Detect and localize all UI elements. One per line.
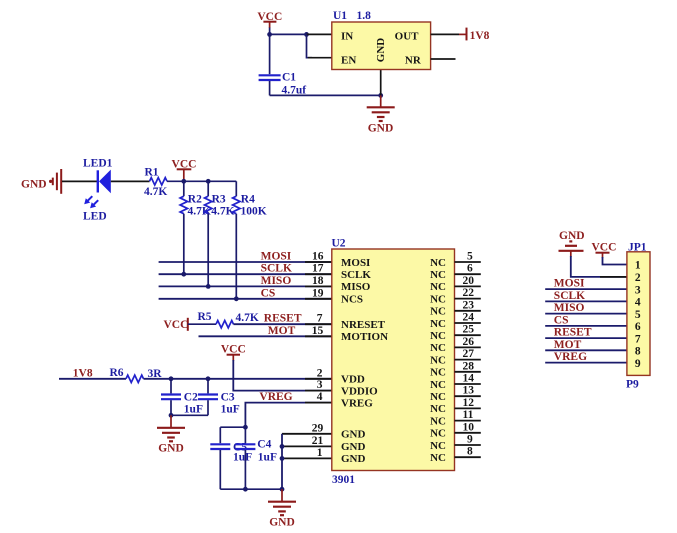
svg-text:24: 24: [463, 312, 475, 324]
svg-text:1: 1: [635, 260, 641, 272]
svg-text:NC: NC: [430, 440, 446, 452]
ground (below C2): [157, 415, 185, 454]
wire JP1 pin 3: [545, 288, 627, 290]
svg-text:NC: NC: [430, 428, 446, 440]
wire MISO: [159, 285, 332, 287]
svg-text:1.8: 1.8: [357, 10, 372, 22]
svg-text:3: 3: [635, 284, 641, 296]
pin 9 (NC): [430, 434, 481, 452]
svg-text:NC: NC: [430, 342, 446, 354]
junction: [243, 425, 248, 430]
svg-text:1: 1: [317, 447, 323, 459]
svg-text:VCC: VCC: [164, 319, 189, 331]
wire JP1 pin 6: [545, 325, 627, 327]
pin 28 (NC): [430, 360, 481, 378]
capacitor C5: [210, 427, 230, 489]
svg-text:U1: U1: [333, 10, 347, 22]
svg-text:NRESET: NRESET: [341, 319, 386, 331]
pin 23 (NC): [430, 299, 481, 317]
wire GND pin 29: [282, 433, 332, 435]
svg-text:15: 15: [312, 325, 324, 337]
IC U2: [332, 238, 455, 487]
wire VCC to VDDIO: [233, 360, 331, 391]
svg-text:U2: U2: [332, 238, 346, 250]
resistor R1: [150, 178, 168, 185]
wire LED to R1: [111, 180, 150, 182]
svg-text:CS: CS: [261, 287, 276, 299]
wire JP1 pin 5: [545, 313, 627, 315]
junction: [206, 376, 211, 381]
svg-text:9: 9: [635, 358, 641, 370]
svg-text:1uF: 1uF: [233, 452, 252, 464]
svg-text:RESET: RESET: [264, 313, 302, 325]
wire C2 to C3 bottom: [171, 414, 208, 416]
junction: [280, 456, 285, 461]
pin 26 (NC): [430, 336, 481, 354]
svg-text:NC: NC: [430, 379, 446, 391]
svg-text:NC: NC: [430, 367, 446, 379]
svg-text:NC: NC: [430, 330, 446, 342]
svg-text:7: 7: [635, 333, 641, 345]
svg-text:NC: NC: [430, 354, 446, 366]
svg-text:6: 6: [635, 321, 641, 333]
pin 10 (NC): [430, 421, 481, 439]
capacitor C2: [161, 379, 181, 416]
svg-text:GND: GND: [21, 179, 47, 191]
wire MOSI: [159, 261, 332, 263]
wire loop bottom: [220, 488, 282, 490]
junction: [206, 179, 211, 184]
svg-text:LED1: LED1: [83, 158, 113, 170]
svg-text:GND: GND: [559, 230, 585, 242]
junction: [206, 284, 211, 289]
svg-text:13: 13: [463, 385, 475, 397]
svg-text:C1: C1: [282, 72, 296, 84]
svg-text:12: 12: [463, 397, 475, 409]
svg-text:NC: NC: [430, 306, 446, 318]
power symbol VCC (sideways, RESET pull-up): [164, 318, 189, 331]
svg-text:1V8: 1V8: [470, 30, 490, 42]
svg-text:SCLK: SCLK: [261, 263, 292, 275]
svg-text:GND: GND: [269, 517, 295, 529]
pin 11 (NC): [430, 409, 481, 427]
wire CS: [159, 298, 332, 300]
wire GND to LED: [62, 180, 98, 182]
svg-text:SCLK: SCLK: [554, 290, 585, 302]
pin 24 (NC): [430, 312, 481, 330]
svg-text:MOSI: MOSI: [341, 257, 370, 269]
svg-text:4.7K: 4.7K: [211, 206, 234, 218]
junction: [234, 296, 239, 301]
svg-text:NC: NC: [430, 281, 446, 293]
svg-text:20: 20: [463, 275, 475, 287]
svg-text:2: 2: [635, 272, 641, 284]
svg-text:1V8: 1V8: [73, 368, 93, 380]
power symbol VCC (JP1): [592, 242, 617, 259]
wire OUT: [431, 33, 459, 35]
svg-text:23: 23: [463, 299, 475, 311]
svg-text:R1: R1: [145, 167, 159, 179]
svg-text:5: 5: [467, 251, 473, 263]
wire VCC to R5: [188, 323, 216, 325]
svg-text:RESET: RESET: [554, 327, 592, 339]
svg-text:GND: GND: [341, 429, 366, 441]
wire R5 to NRESET: [234, 323, 332, 325]
svg-text:14: 14: [463, 373, 475, 385]
pin 25 (NC): [430, 324, 481, 342]
resistor R2: [180, 181, 187, 274]
svg-text:SCLK: SCLK: [341, 269, 371, 281]
connector JP1: [626, 242, 650, 391]
resistor R4: [233, 181, 240, 298]
junction: [243, 487, 248, 492]
pin 12 (NC): [430, 397, 481, 415]
svg-text:NC: NC: [430, 452, 446, 464]
svg-text:22: 22: [463, 287, 475, 299]
svg-text:EN: EN: [341, 55, 356, 67]
power symbol VCC (VDDIO): [221, 344, 246, 362]
capacitor C4: [235, 427, 255, 489]
junction: [280, 444, 285, 449]
svg-text:10: 10: [463, 421, 475, 433]
svg-text:NC: NC: [430, 403, 446, 415]
svg-text:MISO: MISO: [341, 281, 371, 293]
svg-text:VREG: VREG: [554, 351, 587, 363]
svg-text:GND: GND: [341, 453, 366, 465]
wire VREG: [245, 403, 331, 428]
pin 14 (NC): [430, 373, 481, 391]
resistor R3: [205, 181, 212, 286]
ground (JP1): [559, 230, 585, 257]
wire GND pin 21: [282, 445, 332, 447]
svg-text:27: 27: [463, 348, 475, 360]
svg-text:6: 6: [467, 263, 473, 275]
junction: [378, 93, 383, 98]
wire 1V8 to R6: [59, 378, 126, 380]
svg-text:4.7K: 4.7K: [144, 186, 167, 198]
LED LED1: [84, 170, 111, 209]
svg-text:C3: C3: [221, 392, 235, 404]
pin 13 (NC): [430, 385, 481, 403]
wire JP1 pin 4: [545, 300, 627, 302]
svg-text:VREG: VREG: [259, 391, 292, 403]
svg-text:3901: 3901: [332, 474, 355, 486]
svg-text:P9: P9: [626, 379, 639, 391]
svg-text:MOT: MOT: [268, 325, 296, 337]
power symbol VCC (pull-up rail): [172, 159, 197, 182]
svg-text:17: 17: [312, 263, 324, 275]
svg-text:8: 8: [635, 346, 641, 358]
resistor R5: [216, 321, 234, 328]
wire GND drop: [281, 434, 283, 489]
svg-text:100K: 100K: [241, 206, 267, 218]
wire JP1 pin 7: [545, 337, 627, 339]
svg-text:NC: NC: [430, 293, 446, 305]
svg-text:NC: NC: [430, 415, 446, 427]
svg-text:C4: C4: [257, 439, 271, 451]
wire SCLK: [159, 273, 332, 275]
svg-text:7: 7: [317, 313, 323, 325]
wire JP1 pin 8: [545, 349, 627, 351]
ground (below U1): [367, 95, 395, 134]
svg-text:JP1: JP1: [628, 242, 647, 254]
svg-text:4: 4: [317, 391, 323, 403]
svg-text:MISO: MISO: [554, 302, 585, 314]
svg-text:25: 25: [463, 324, 475, 336]
svg-text:CS: CS: [554, 314, 569, 326]
svg-text:R5: R5: [198, 311, 212, 323]
svg-text:9: 9: [467, 434, 473, 446]
svg-text:5: 5: [635, 309, 641, 321]
svg-text:R4: R4: [241, 194, 255, 206]
svg-text:26: 26: [463, 336, 475, 348]
ground (LED cathode): [21, 169, 61, 194]
power port 1V8: [467, 28, 490, 42]
svg-text:R2: R2: [188, 194, 202, 206]
svg-text:LED: LED: [83, 211, 107, 223]
wire C1 to U1 GND: [270, 94, 381, 96]
svg-text:NC: NC: [430, 318, 446, 330]
svg-text:8: 8: [467, 446, 473, 458]
svg-text:11: 11: [463, 409, 474, 421]
wire JP1 pin 9: [545, 362, 627, 364]
svg-text:3: 3: [317, 379, 323, 391]
wire EN stub: [308, 57, 332, 59]
svg-text:GND: GND: [341, 441, 366, 453]
svg-text:1uF: 1uF: [184, 404, 203, 416]
svg-text:MISO: MISO: [261, 275, 292, 287]
svg-text:R6: R6: [110, 367, 124, 379]
svg-text:MOTION: MOTION: [341, 331, 388, 343]
capacitor C1: [259, 34, 281, 95]
svg-text:MOT: MOT: [554, 339, 582, 351]
svg-text:R3: R3: [212, 194, 226, 206]
svg-text:NC: NC: [430, 269, 446, 281]
wire IN stub: [307, 33, 332, 35]
junction: [304, 32, 309, 37]
pin 6 (NC): [430, 263, 481, 281]
pin 22 (NC): [430, 287, 481, 305]
wire GND pin 1: [282, 457, 332, 459]
wire JP1 GND to pin 2: [571, 256, 627, 277]
svg-text:GND: GND: [375, 38, 387, 63]
svg-text:4.7K: 4.7K: [236, 312, 259, 324]
wire R6 to VDD: [144, 378, 332, 380]
pin 8 (NC): [430, 446, 481, 464]
svg-text:GND: GND: [368, 123, 394, 135]
svg-text:GND: GND: [158, 443, 184, 455]
svg-text:1uF: 1uF: [258, 452, 277, 464]
power symbol VCC (regulator input): [257, 11, 282, 28]
svg-text:29: 29: [312, 422, 324, 434]
ground (below C4/C5): [268, 489, 296, 528]
svg-text:NC: NC: [430, 257, 446, 269]
junction: [169, 413, 174, 418]
svg-text:VDDIO: VDDIO: [341, 385, 378, 397]
wire NR stub: [431, 58, 456, 60]
svg-text:21: 21: [312, 435, 324, 447]
wire VCC to IN node: [270, 28, 307, 35]
svg-text:IN: IN: [341, 31, 353, 43]
svg-text:C2: C2: [184, 392, 198, 404]
junction: [181, 272, 186, 277]
svg-text:OUT: OUT: [395, 31, 420, 43]
wire JP1 VCC to pin 1: [603, 257, 627, 265]
pin 27 (NC): [430, 348, 481, 366]
junction: [181, 179, 186, 184]
svg-text:28: 28: [463, 360, 475, 372]
pin 5 (NC): [430, 251, 481, 269]
svg-text:MOSI: MOSI: [261, 251, 292, 263]
wire loop top: [220, 426, 245, 428]
svg-text:19: 19: [312, 287, 324, 299]
svg-text:2: 2: [317, 367, 323, 379]
wire R1 to VCC rail: [167, 180, 184, 182]
svg-text:4: 4: [635, 297, 641, 309]
svg-text:1uF: 1uF: [221, 404, 240, 416]
svg-text:NC: NC: [430, 391, 446, 403]
pin 20 (NC): [430, 275, 481, 293]
wire VCC rail: [184, 180, 237, 182]
resistor R6: [126, 375, 144, 382]
junction: [267, 32, 272, 37]
wire EN drop: [307, 34, 313, 57]
svg-text:NCS: NCS: [341, 293, 363, 305]
svg-text:VREG: VREG: [341, 397, 373, 409]
svg-text:VDD: VDD: [341, 374, 365, 386]
svg-text:18: 18: [312, 275, 324, 287]
svg-text:16: 16: [312, 251, 324, 263]
junction: [280, 487, 285, 492]
regulator U1: [332, 10, 431, 70]
capacitor C3: [198, 379, 218, 416]
svg-text:NR: NR: [405, 55, 422, 67]
wire MOT: [199, 335, 332, 337]
svg-text:MOSI: MOSI: [554, 278, 585, 290]
junction: [169, 376, 174, 381]
wire U1 GND pin: [380, 70, 382, 96]
